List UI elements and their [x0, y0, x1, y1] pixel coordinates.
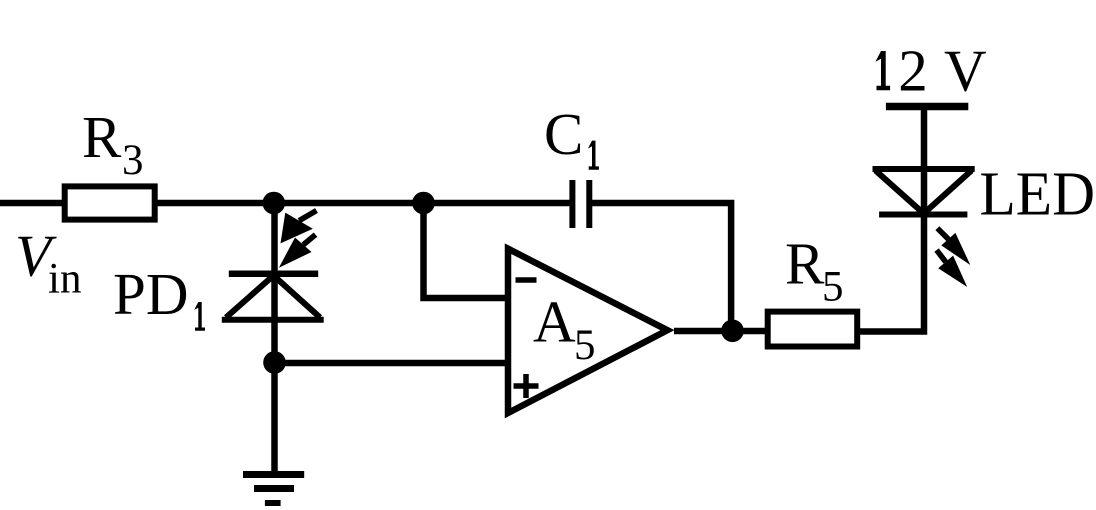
svg-text:LED: LED [980, 161, 1096, 229]
svg-text:R: R [785, 230, 825, 296]
svg-text:A: A [533, 289, 576, 355]
svg-text:C: C [544, 101, 583, 167]
svg-text:5: 5 [574, 322, 596, 369]
svg-text:R: R [82, 104, 122, 170]
svg-text:in: in [48, 256, 81, 303]
svg-text:PD: PD [113, 261, 188, 327]
svg-text:3: 3 [122, 137, 144, 184]
svg-text:V: V [944, 38, 987, 104]
svg-text:2: 2 [898, 38, 928, 104]
svg-text:5: 5 [822, 263, 844, 310]
